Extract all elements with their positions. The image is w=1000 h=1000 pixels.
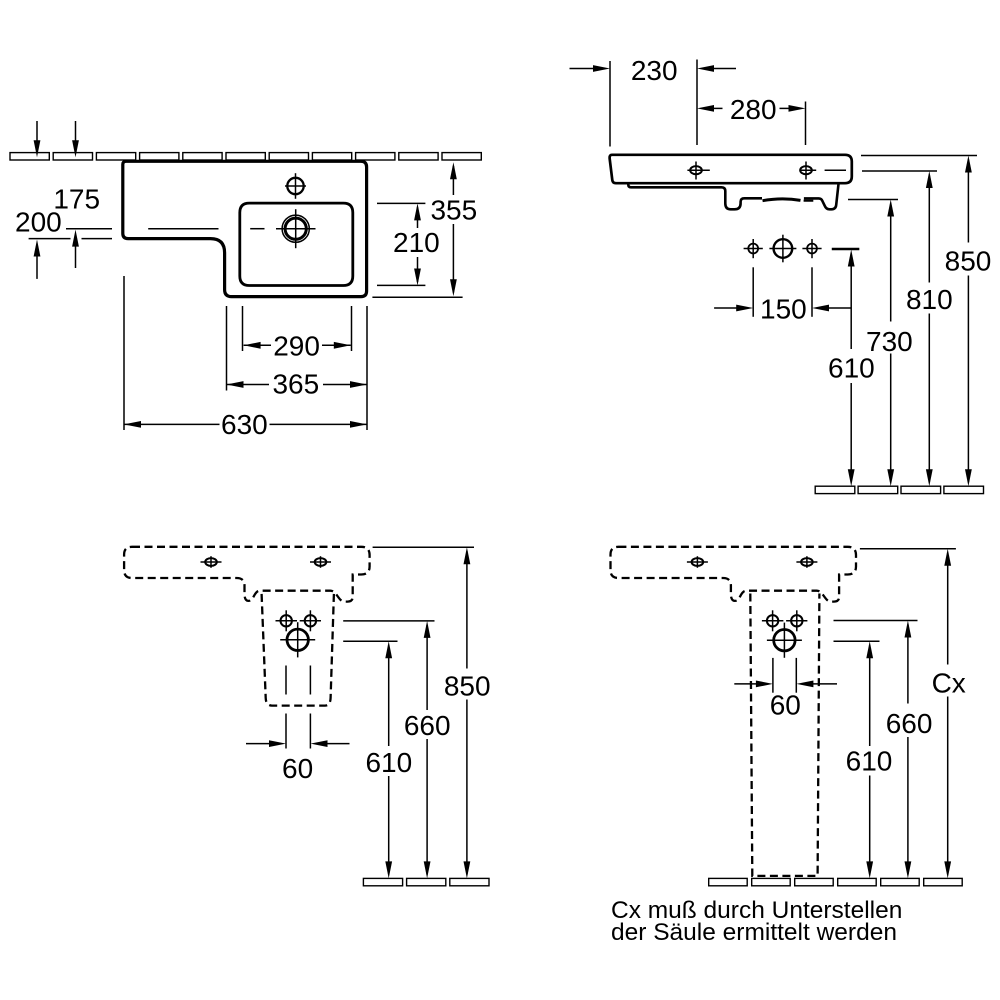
view3 semi-pedestal dashed outline [262, 594, 334, 706]
view2 wall hole big [774, 239, 793, 258]
view4 deck hole right ticks [806, 556, 808, 568]
svg-text:850: 850 [444, 671, 491, 702]
view2 drain recess band [763, 199, 801, 201]
view4 deck hole left ticks [696, 556, 698, 568]
view2 bowl lip and bracket [628, 183, 762, 209]
svg-text:60: 60 [770, 690, 801, 721]
svg-text:850: 850 [945, 245, 992, 276]
dim 610 extension (view4) [834, 640, 880, 642]
view1 basin outer outline [123, 161, 367, 296]
dim 810 extension (view2) [862, 170, 937, 172]
dim 210 line [417, 207, 419, 228]
view3 deck hole right ticks [320, 556, 322, 568]
view2 wall hole small left crosshair [752, 239, 754, 258]
svg-text:610: 610 [828, 353, 875, 384]
view4 drain hole crosshair [783, 623, 785, 658]
dim 355 bottom extension [372, 296, 462, 298]
dim 660 line (view4) [905, 621, 912, 638]
svg-text:365: 365 [272, 369, 319, 400]
svg-text:200: 200 [15, 206, 62, 237]
svg-text:60: 60 [282, 753, 313, 784]
view1 drain outer circle [282, 215, 309, 242]
svg-text:630: 630 [221, 409, 268, 440]
dim 230 line and arrows [570, 68, 598, 70]
view2 wall hole big crosshair [782, 235, 784, 263]
view4 deck hole right [801, 558, 813, 566]
view2 wall hole small right [807, 244, 817, 254]
view1 faucet hole [287, 178, 303, 194]
view4 pedestal dashed outline [750, 594, 819, 876]
view1 wall datum arrow left (for 200) [36, 121, 38, 146]
dim 355 line [452, 166, 454, 195]
view2 drain recess tick [804, 200, 814, 202]
dim 610 extension (view3) [343, 640, 397, 642]
svg-text:210: 210 [393, 227, 440, 258]
svg-text:der Säule ermittelt werden: der Säule ermittelt werden [611, 919, 897, 946]
view2 wall hole centerline dash [832, 248, 860, 250]
view3 fixing hole left [281, 615, 292, 626]
view4 fixing hole left crosshair [772, 610, 774, 631]
svg-text:290: 290 [273, 331, 320, 362]
view3 floor tiles [363, 878, 402, 885]
dim 850 extension (view3) [373, 546, 474, 548]
view2 deck hole left ticks [695, 162, 697, 180]
dim Cx line (view4) [944, 549, 951, 566]
view3 fixing hole right crosshair [309, 610, 311, 631]
view3 basin dashed outline [124, 547, 370, 602]
dim 200 extension line [29, 238, 71, 240]
dim 630 line [124, 423, 220, 425]
dim 60 extension lines (view4) [772, 658, 774, 693]
dim 660 extension (view4) [834, 620, 918, 622]
dim 610 extension (view2) [832, 249, 860, 251]
view3 deck hole left ticks [210, 556, 212, 568]
view2 deck hole right ticks [805, 162, 807, 180]
dim 660 line (view3) [424, 621, 431, 638]
view2 deck hole left [690, 166, 702, 174]
dim 730 extension (view2) [848, 199, 898, 201]
view3 deck hole right [315, 558, 327, 566]
dim 610 line (view4) [866, 641, 873, 658]
view2 floor tiles [815, 486, 855, 493]
svg-text:660: 660 [886, 708, 933, 739]
dim 850 extension (view2) [861, 155, 977, 157]
dim Cx extension (view4) [860, 548, 956, 550]
view1 inner basin outline [240, 203, 353, 285]
view4 basin dashed outline [611, 547, 857, 602]
dim 730 line (view2) [887, 200, 894, 217]
dim 280 right extension [805, 102, 807, 146]
view1 lower extension lines [123, 276, 125, 430]
view3 drain hole crosshair [297, 622, 299, 657]
view4 fixing hole right [791, 615, 802, 626]
dim 850 line (view2) [965, 156, 972, 173]
view2 deck hole right [800, 166, 812, 174]
view4 floor tiles [709, 878, 748, 885]
view4 deck hole left [692, 558, 704, 566]
svg-text:660: 660 [404, 710, 451, 741]
view4 fixing hole right crosshair [796, 610, 798, 631]
dim 230 right extension [696, 60, 698, 146]
dim 210 extension lines [377, 202, 425, 204]
dim 610 line (view2) [848, 250, 855, 267]
view2 wall hole small left [748, 244, 758, 254]
view1 wall datum arrow right (for 175) [75, 121, 77, 146]
svg-text:610: 610 [846, 746, 893, 777]
dim 150 line and arrows [714, 307, 740, 309]
svg-text:150: 150 [760, 294, 807, 325]
dim 290 line [244, 344, 271, 346]
view4 fixing hole left [767, 615, 778, 626]
view1 drain crosshair [295, 209, 297, 248]
dim 60 line and arrows (view4) [734, 683, 759, 685]
view2 deck profile [610, 155, 852, 183]
view2 wall hole small right crosshair [811, 239, 813, 258]
view1 drain inner circle [285, 218, 306, 239]
dim 150 extension lines [752, 267, 754, 317]
dim 610 line (view3) [385, 641, 392, 658]
view3 fixing hole right [305, 615, 316, 626]
dim 175 extension line [66, 228, 112, 230]
svg-text:810: 810 [906, 284, 953, 315]
svg-text:280: 280 [730, 94, 777, 125]
view3 drain hole big circle [287, 629, 308, 650]
view3 deck hole left [205, 558, 217, 566]
svg-text:230: 230 [631, 55, 678, 86]
svg-text:355: 355 [430, 194, 477, 225]
view1 wall tile hatching [10, 153, 49, 160]
dim 810 line (view2) [926, 171, 933, 188]
view1 faucet hole centerline ticks [295, 173, 297, 199]
view2 deck hole centerline dash [825, 169, 846, 171]
view3 fixing hole left crosshair [285, 610, 287, 631]
dim 280 line and arrows [697, 105, 714, 112]
dim 175 arrow [72, 230, 79, 247]
dim 60 extension lines (view3) [285, 666, 287, 695]
svg-text:730: 730 [866, 326, 913, 357]
svg-text:Cx: Cx [932, 667, 966, 698]
view4 drain hole big circle [774, 630, 795, 651]
dim 850 line (view3) [464, 547, 471, 564]
dim 230 left extension [609, 61, 611, 147]
dim 60 line and arrows (view3) [246, 743, 273, 745]
dim 660 extension (view3) [343, 620, 434, 622]
svg-text:610: 610 [365, 747, 412, 778]
dim 200 arrow [34, 240, 41, 257]
view1 drain centerline dashes [148, 228, 218, 230]
dim 365 line [227, 384, 270, 386]
